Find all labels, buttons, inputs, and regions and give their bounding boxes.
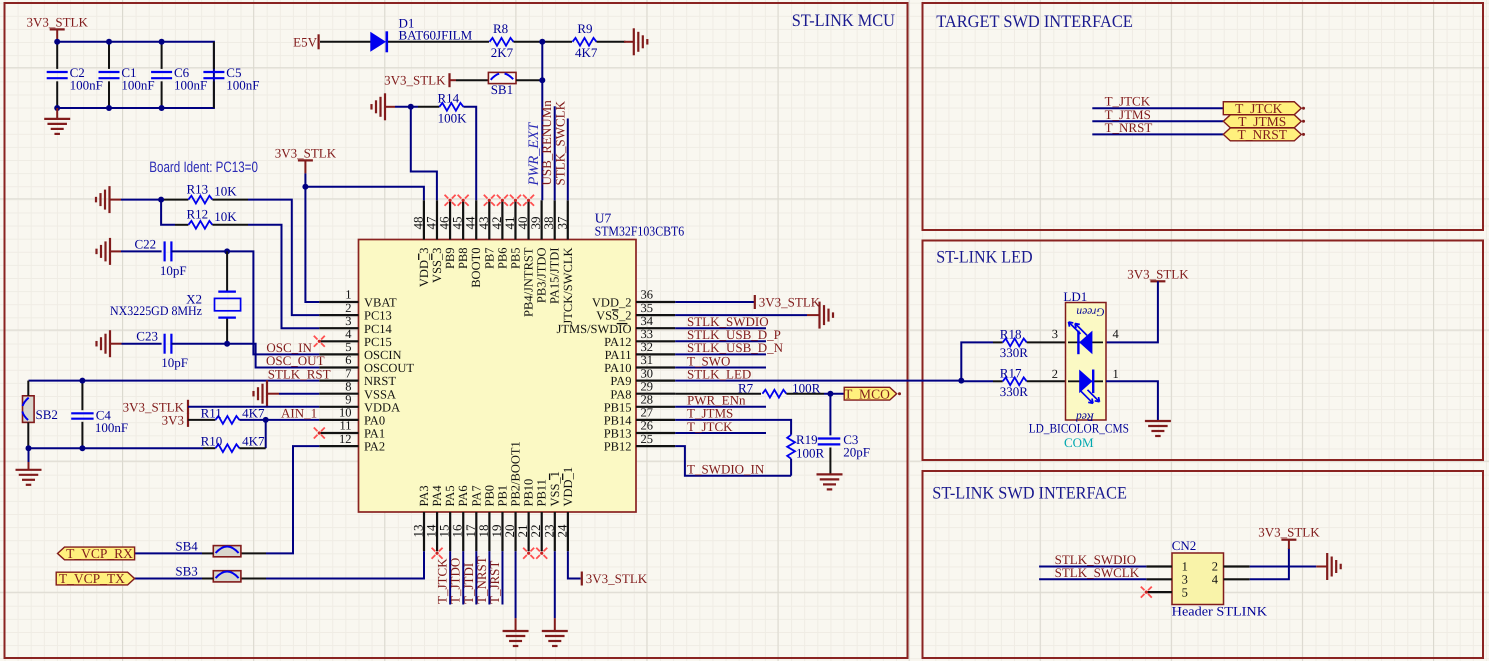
title TARGET SWD INTERFACE bbox=[936, 11, 1133, 31]
svg-text:PA12: PA12 bbox=[604, 335, 631, 349]
net label USB_RENUMn bbox=[539, 100, 554, 186]
wire R11 to pin 10 PA0 bbox=[239, 419, 319, 421]
net label STLK_SWCLK bbox=[1055, 565, 1140, 580]
wire pin 32 STLK_USB_D_N bbox=[675, 353, 766, 355]
pin 14 PA4 bbox=[424, 485, 445, 552]
svg-text:5: 5 bbox=[345, 340, 351, 354]
wire ground to R12 bbox=[161, 200, 175, 225]
wire ground rail bottom bbox=[29, 447, 204, 449]
wire pin 23 to ground bbox=[554, 551, 556, 618]
power port 3V3 bbox=[162, 412, 188, 427]
svg-text:R17: R17 bbox=[1000, 366, 1022, 381]
wire C22 to pin 5 OSC_IN bbox=[171, 251, 319, 354]
ground (pin 8 VSSA) bbox=[254, 380, 280, 407]
svg-text:20pF: 20pF bbox=[843, 445, 870, 460]
section box ST-LINK SWD INTERFACE bbox=[923, 471, 1484, 658]
net label OSC_IN bbox=[266, 340, 312, 355]
net label STLK_USB_D_P bbox=[687, 327, 781, 342]
capacitor C5 bbox=[203, 42, 259, 108]
junction bbox=[106, 39, 112, 45]
svg-text:3V3_STLK: 3V3_STLK bbox=[1127, 266, 1189, 281]
pin 26 PB13 bbox=[604, 419, 675, 441]
net label T_SWO bbox=[687, 353, 730, 368]
svg-text:VSS_2: VSS_2 bbox=[596, 309, 631, 323]
svg-text:3V3_STLK: 3V3_STLK bbox=[1258, 525, 1320, 540]
no-ERC pin 45 bbox=[458, 195, 469, 206]
wire 3V3_STLK to SB1 bbox=[456, 79, 488, 81]
svg-text:PA5: PA5 bbox=[443, 485, 457, 506]
svg-text:C22: C22 bbox=[135, 236, 157, 251]
wire 3V3_STLK to LED pin 4 bbox=[1106, 281, 1158, 342]
no-ERC pin 41 bbox=[510, 195, 521, 206]
svg-text:PB2/BOOT1: PB2/BOOT1 bbox=[509, 441, 523, 506]
CN2 pin 3 bbox=[1146, 573, 1188, 587]
svg-text:VSSA: VSSA bbox=[364, 387, 396, 401]
net label T_JTMS bbox=[687, 406, 733, 421]
svg-text:R7: R7 bbox=[738, 380, 754, 395]
svg-text:2: 2 bbox=[345, 301, 351, 315]
resistor R17 bbox=[1000, 366, 1029, 400]
junction bbox=[159, 105, 165, 111]
no-ERC pin 21 bbox=[523, 548, 534, 559]
svg-text:27: 27 bbox=[641, 406, 654, 420]
pin 43 PB7 bbox=[476, 200, 497, 269]
resistor R7 bbox=[738, 380, 821, 397]
junction bbox=[302, 184, 308, 190]
wire SB4 to T_VCP_RX bbox=[135, 552, 202, 554]
wire R18 to LED pin 3 bbox=[1027, 341, 1066, 343]
svg-text:SB3: SB3 bbox=[175, 564, 197, 579]
junction bbox=[54, 105, 60, 111]
svg-text:PB5: PB5 bbox=[508, 248, 522, 270]
svg-text:T_NRST: T_NRST bbox=[1238, 127, 1288, 142]
wire ground net to pin 47 VSS_3 bbox=[411, 107, 437, 201]
svg-text:PB8: PB8 bbox=[456, 248, 470, 270]
IC U7 STM32F103CBT6 body bbox=[359, 240, 637, 513]
svg-text:PB3/JTDO: PB3/JTDO bbox=[535, 248, 549, 304]
net label STLK_RST bbox=[268, 366, 331, 381]
svg-text:35: 35 bbox=[641, 301, 654, 315]
pin 4 PC15 bbox=[319, 327, 391, 349]
svg-text:330R: 330R bbox=[1000, 384, 1029, 399]
svg-text:LD1: LD1 bbox=[1063, 289, 1087, 304]
wire pin 28 PWR_ENn bbox=[675, 406, 766, 408]
pin 41 PB5 bbox=[502, 200, 523, 269]
svg-text:34: 34 bbox=[641, 314, 654, 328]
svg-text:100nF: 100nF bbox=[70, 78, 103, 93]
pin 45 PB8 bbox=[450, 200, 471, 269]
no-ERC pin 43 bbox=[484, 195, 495, 206]
svg-text:STLK_LED: STLK_LED bbox=[687, 366, 751, 381]
wire R9 to ground bbox=[597, 41, 626, 43]
junction bbox=[539, 39, 545, 45]
capacitor C4 bbox=[71, 381, 128, 449]
ground (pin 23) bbox=[542, 618, 568, 646]
wire pin 19 T_JRST bbox=[501, 551, 503, 604]
pin 47 VSS_3 bbox=[423, 200, 444, 283]
svg-text:R9: R9 bbox=[577, 21, 592, 36]
svg-text:PB13: PB13 bbox=[604, 427, 632, 441]
section box ST-LINK LED bbox=[923, 241, 1484, 461]
capacitor C23 bbox=[136, 329, 188, 370]
net label STLK_LED bbox=[687, 366, 751, 381]
wire pin 35 to ground bbox=[675, 314, 807, 316]
junction bbox=[224, 341, 230, 347]
LED pin 1 number bbox=[1113, 367, 1119, 381]
pin 7 NRST bbox=[319, 366, 396, 388]
crystal X2 bbox=[110, 251, 241, 343]
no-ERC pin 46 bbox=[445, 195, 456, 206]
svg-text:PB14: PB14 bbox=[604, 414, 633, 428]
power port E5V bbox=[293, 34, 318, 49]
junction bbox=[958, 378, 964, 384]
junction bbox=[224, 248, 230, 254]
pin 21 PB10 bbox=[515, 479, 536, 551]
svg-text:10pF: 10pF bbox=[160, 263, 187, 278]
ground (cap bank) bbox=[44, 108, 70, 134]
solder bridge SB3 bbox=[175, 564, 241, 582]
svg-text:1: 1 bbox=[345, 288, 351, 302]
svg-text:OSCIN: OSCIN bbox=[364, 348, 402, 362]
svg-text:SB4: SB4 bbox=[175, 538, 198, 553]
svg-text:100nF: 100nF bbox=[174, 78, 207, 93]
svg-text:VDDA: VDDA bbox=[364, 400, 400, 414]
svg-text:100K: 100K bbox=[438, 111, 468, 126]
svg-text:TARGET SWD INTERFACE: TARGET SWD INTERFACE bbox=[936, 11, 1133, 31]
LED LD1 body bbox=[1066, 303, 1107, 421]
pin 5 OSCIN bbox=[319, 340, 401, 362]
svg-text:VSS_3: VSS_3 bbox=[430, 248, 444, 283]
designator LD1 bbox=[1063, 289, 1087, 304]
svg-text:3V3_STLK: 3V3_STLK bbox=[27, 14, 89, 29]
pin 40 PB4/JNTRST bbox=[515, 200, 536, 317]
svg-text:R19: R19 bbox=[796, 432, 818, 447]
no-ERC pin 14 bbox=[432, 548, 443, 559]
port T_JTCK bbox=[1223, 101, 1301, 116]
svg-text:PA10: PA10 bbox=[604, 361, 631, 375]
svg-text:29: 29 bbox=[641, 379, 654, 393]
CN2 pin 1 bbox=[1146, 560, 1188, 574]
svg-text:PA9: PA9 bbox=[610, 374, 631, 388]
svg-text:8: 8 bbox=[345, 379, 351, 393]
wire SB1 to PWR_EXT net bbox=[516, 79, 542, 81]
svg-text:3V3_STLK: 3V3_STLK bbox=[586, 571, 648, 586]
svg-text:PA2: PA2 bbox=[364, 440, 385, 454]
svg-text:LD_BICOLOR_CMS: LD_BICOLOR_CMS bbox=[1029, 420, 1129, 435]
junction bbox=[54, 39, 60, 45]
wire pin 29 to R7 bbox=[675, 393, 761, 395]
resistor R14 bbox=[438, 90, 468, 125]
dot after port T_JTMS bbox=[1302, 120, 1305, 123]
svg-text:Green: Green bbox=[1076, 305, 1105, 317]
svg-text:PC14: PC14 bbox=[364, 322, 393, 336]
wire CN2 pin 2 to ground bbox=[1250, 566, 1317, 568]
wire ground to R13 bbox=[121, 199, 161, 201]
svg-text:4K7: 4K7 bbox=[575, 45, 598, 60]
wire ground to pin 8 VSSA bbox=[279, 393, 319, 395]
wire 3V3 to R11 bbox=[188, 419, 215, 421]
svg-text:32: 32 bbox=[641, 340, 654, 354]
wire pin 36 to 3V3_STLK bbox=[675, 301, 755, 303]
junction bbox=[158, 197, 164, 203]
svg-text:6: 6 bbox=[345, 353, 351, 367]
wire pin 30 STLK_LED to LED section bbox=[675, 380, 961, 382]
pin 22 PB11 bbox=[528, 479, 549, 551]
svg-text:36: 36 bbox=[641, 288, 654, 302]
svg-text:3: 3 bbox=[1052, 327, 1058, 341]
wire pin 34 STLK_SWDIO bbox=[675, 327, 766, 329]
wire T_NRST bbox=[1092, 133, 1223, 135]
junction bbox=[79, 445, 85, 451]
CN2 pin 5 bbox=[1146, 585, 1188, 599]
svg-text:T_NRST: T_NRST bbox=[1105, 120, 1153, 135]
svg-text:330R: 330R bbox=[1000, 345, 1029, 360]
wire pin 27 T_JTMS to R19 bbox=[675, 420, 791, 435]
no-ERC CN2 pin 5 bbox=[1141, 587, 1152, 598]
dot after port T_NRST bbox=[1302, 133, 1305, 136]
svg-text:100nF: 100nF bbox=[95, 420, 128, 435]
wire 3V3 to pin 48 VDD_3 bbox=[305, 187, 424, 201]
svg-text:PC13: PC13 bbox=[364, 309, 392, 323]
svg-text:COM: COM bbox=[1064, 435, 1094, 450]
wire cap bank rails bbox=[57, 42, 214, 108]
svg-text:SB1: SB1 bbox=[491, 82, 513, 97]
svg-text:ST-LINK MCU: ST-LINK MCU bbox=[792, 10, 896, 30]
diode D1 bbox=[370, 16, 472, 53]
wire ground to R14 bbox=[395, 106, 418, 108]
pin 6 OSCOUT bbox=[319, 353, 414, 375]
net label T_JTCK bbox=[435, 558, 450, 604]
svg-text:26: 26 bbox=[641, 419, 654, 433]
LED pin 4 number bbox=[1113, 327, 1120, 341]
wire pin 24 to 3V3_STLK bbox=[568, 551, 581, 578]
svg-text:2K7: 2K7 bbox=[491, 45, 514, 60]
junction bbox=[408, 104, 414, 110]
pin 42 PB6 bbox=[489, 200, 510, 269]
wire pin 12 PA2 to SB4 bbox=[266, 446, 319, 553]
pin 25 PB12 bbox=[604, 432, 675, 454]
LED LD1 green element bbox=[1068, 305, 1105, 354]
svg-text:VBAT: VBAT bbox=[364, 296, 397, 310]
ground (pin 35 VSS_2) bbox=[807, 302, 833, 329]
wire 3V3_STLK stem bbox=[56, 29, 58, 41]
designator CN2 bbox=[1172, 538, 1197, 553]
svg-text:PB1: PB1 bbox=[495, 485, 509, 507]
svg-text:9: 9 bbox=[345, 393, 351, 407]
solder bridge SB4 bbox=[175, 538, 241, 557]
net label STLK_SWCLK bbox=[552, 100, 567, 185]
power port 3V3_STLK (LED) bbox=[1127, 266, 1189, 281]
wire T_JTCK bbox=[1092, 107, 1223, 109]
net label T_SWDIO_IN bbox=[687, 461, 765, 476]
power port 3V3_STLK (cap bank) bbox=[27, 14, 89, 29]
svg-text:3V3_STLK: 3V3_STLK bbox=[759, 295, 821, 310]
svg-text:T_JTMS: T_JTMS bbox=[687, 406, 733, 421]
dot after port T_JTCK bbox=[1302, 107, 1305, 110]
svg-text:10K: 10K bbox=[214, 184, 237, 199]
pin 20 PB2/BOOT1 bbox=[502, 441, 523, 551]
ground (SB2/C4) bbox=[16, 448, 42, 485]
no-ERC pin 40 bbox=[523, 195, 534, 206]
svg-text:28: 28 bbox=[641, 393, 654, 407]
svg-text:BAT60JFILM: BAT60JFILM bbox=[399, 28, 473, 43]
wire pin 33 STLK_USB_D_P bbox=[675, 340, 766, 342]
svg-text:10pF: 10pF bbox=[161, 355, 188, 370]
resistor R8 bbox=[490, 21, 514, 60]
svg-text:12: 12 bbox=[339, 432, 352, 446]
wire SB3 to T_VCP_TX bbox=[135, 578, 202, 580]
svg-text:PB9: PB9 bbox=[443, 248, 457, 270]
section box ST-LINK MCU bbox=[5, 3, 908, 658]
wire CN2 pin 4 to 3V3_STLK bbox=[1250, 548, 1289, 579]
net label T_JTCK bbox=[1105, 94, 1151, 109]
LED pin 2 number bbox=[1052, 367, 1058, 381]
svg-text:PA3: PA3 bbox=[417, 485, 431, 506]
svg-text:C23: C23 bbox=[136, 329, 158, 344]
pin 29 PA8 bbox=[610, 379, 675, 401]
ground (C3) bbox=[817, 474, 843, 489]
wire SB2 bottom lead bbox=[27, 422, 29, 448]
capacitor C2 bbox=[47, 42, 103, 108]
net label PWR_ENn bbox=[687, 393, 746, 408]
wire R8 to node bbox=[514, 41, 543, 43]
no-ERC pin 22 bbox=[536, 548, 547, 559]
wire node to R9 bbox=[544, 41, 572, 43]
net label T_JRST bbox=[487, 561, 502, 604]
svg-text:PA8: PA8 bbox=[610, 387, 631, 401]
wire R14 to pin 44 BOOT0 bbox=[463, 107, 476, 201]
svg-text:STLK_SWCLK: STLK_SWCLK bbox=[1055, 565, 1140, 580]
resistor R18 bbox=[1000, 326, 1029, 360]
svg-text:T_VCP_RX: T_VCP_RX bbox=[66, 546, 133, 561]
svg-text:PB11: PB11 bbox=[535, 479, 549, 506]
wire T_MCO node to C3 bbox=[829, 394, 831, 436]
title ST-LINK MCU bbox=[792, 10, 896, 30]
LED LD1 red element bbox=[1068, 370, 1103, 423]
svg-text:Header STLINK: Header STLINK bbox=[1172, 604, 1268, 619]
ground (R9 right) bbox=[624, 28, 647, 55]
wire node to R17 bbox=[961, 380, 993, 382]
resistor R11 bbox=[201, 405, 265, 423]
value Header STLINK bbox=[1172, 604, 1268, 619]
LED pin 3 number bbox=[1052, 327, 1058, 341]
svg-text:VDD_1: VDD_1 bbox=[561, 467, 575, 507]
pin 8 VSSA bbox=[319, 379, 396, 401]
power port 3V3_STLK (SB1) bbox=[384, 73, 449, 88]
port T_VCP_TX bbox=[56, 571, 134, 586]
svg-text:4K7: 4K7 bbox=[242, 434, 265, 449]
svg-text:100R: 100R bbox=[796, 446, 825, 461]
wire pin 15 T_JTCK bbox=[449, 551, 451, 604]
svg-text:BOOT0: BOOT0 bbox=[469, 248, 483, 288]
svg-text:STM32F103CBT6: STM32F103CBT6 bbox=[595, 223, 685, 238]
net label T_JTCK bbox=[687, 419, 733, 434]
svg-text:PB6: PB6 bbox=[495, 248, 509, 270]
junction bbox=[539, 77, 545, 83]
pin 44 BOOT0 bbox=[463, 200, 484, 287]
svg-text:4K7: 4K7 bbox=[242, 405, 265, 420]
svg-text:3V3: 3V3 bbox=[162, 412, 184, 427]
junction bbox=[26, 445, 32, 451]
junction bbox=[263, 417, 269, 423]
port T_NRST bbox=[1223, 127, 1301, 142]
svg-text:33: 33 bbox=[641, 327, 654, 341]
svg-text:PB0: PB0 bbox=[482, 485, 496, 507]
pin 19 PB1 bbox=[489, 485, 510, 551]
svg-text:PA0: PA0 bbox=[364, 414, 385, 428]
label COM bbox=[1064, 435, 1094, 450]
pin 17 PA7 bbox=[463, 485, 484, 551]
pin 38 PA15/JTDI bbox=[541, 200, 562, 304]
ground (pin 20) bbox=[503, 618, 529, 646]
wire R19 to T_SWDIO_IN bbox=[790, 459, 792, 476]
junction bbox=[159, 39, 165, 45]
svg-text:PB10: PB10 bbox=[522, 479, 536, 507]
net label T_NRST bbox=[474, 556, 489, 604]
wire 3V3_STLK stem 2 bbox=[304, 160, 306, 173]
designator U7 bbox=[595, 211, 612, 226]
wire pin 17 T_JTDI bbox=[475, 551, 477, 604]
resistor R13 bbox=[187, 181, 238, 203]
capacitor C3 bbox=[818, 432, 870, 475]
ground (C22 left) bbox=[97, 238, 122, 265]
pin 16 PA6 bbox=[450, 485, 471, 551]
net label STLK_USB_D_N bbox=[687, 340, 784, 355]
resistor R12 bbox=[187, 207, 238, 229]
svg-text:T_VCP_TX: T_VCP_TX bbox=[59, 571, 125, 586]
svg-text:T_MCO: T_MCO bbox=[844, 386, 890, 401]
wire D1 to R8 bbox=[388, 41, 489, 43]
pin 15 PA5 bbox=[437, 485, 458, 551]
pin 27 PB14 bbox=[604, 406, 675, 428]
net label T_JTDO bbox=[448, 558, 463, 604]
value STM32F103CBT6 bbox=[595, 223, 685, 238]
resistor R19 bbox=[787, 432, 824, 461]
pin 39 PB3/JTDO bbox=[528, 200, 549, 303]
pin 32 PA11 bbox=[605, 340, 676, 362]
svg-text:PC15: PC15 bbox=[364, 335, 392, 349]
net label PWR_EXT bbox=[526, 122, 542, 187]
wire pin 26 T_JTCK bbox=[675, 432, 766, 434]
svg-text:30: 30 bbox=[641, 366, 654, 380]
pin 34 JTMS/SWDIO bbox=[556, 314, 675, 336]
junction bbox=[827, 391, 833, 397]
pin 2 PC13 bbox=[319, 301, 391, 323]
net label T_NRST bbox=[1105, 120, 1153, 135]
wire R10 right lead bbox=[239, 447, 265, 449]
wire pin 37 STLK_SWCLK bbox=[567, 119, 569, 201]
ground (R13 left) bbox=[96, 186, 121, 213]
wire LED pin 1 to ground bbox=[1106, 381, 1158, 421]
net label STLK_SWDIO bbox=[1055, 552, 1137, 567]
ground (CN2) bbox=[1316, 553, 1340, 580]
wire R7 to T_MCO bbox=[824, 393, 844, 395]
wire E5V to D1 bbox=[320, 41, 371, 43]
net label T_JTMS bbox=[1105, 107, 1151, 122]
svg-text:PB15: PB15 bbox=[604, 400, 632, 414]
svg-text:NRST: NRST bbox=[364, 374, 396, 388]
pin 31 PA10 bbox=[604, 353, 675, 375]
CN2 pin 4 bbox=[1212, 573, 1250, 587]
svg-text:24: 24 bbox=[554, 524, 569, 538]
no-ERC pin 42 bbox=[497, 195, 508, 206]
title ST-LINK LED bbox=[936, 247, 1032, 267]
pin 28 PB15 bbox=[604, 393, 675, 415]
svg-text:37: 37 bbox=[554, 216, 569, 230]
svg-text:CN2: CN2 bbox=[1172, 538, 1197, 553]
wire R13 to pin 2 PC13 bbox=[248, 200, 319, 316]
svg-text:AIN_1: AIN_1 bbox=[281, 406, 317, 421]
